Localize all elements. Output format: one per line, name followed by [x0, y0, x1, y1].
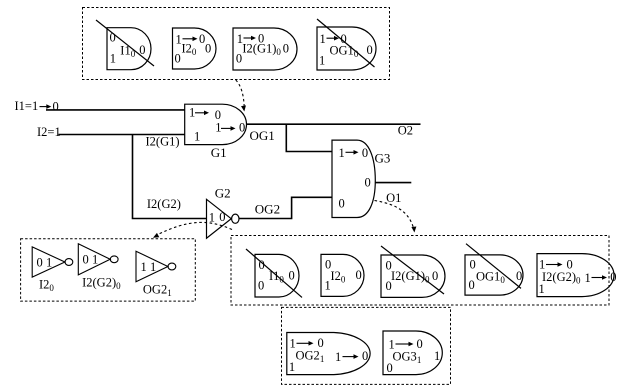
transition arrow (C OG3 top) [396, 342, 414, 347]
value label 1 (C OG3 output) [434, 349, 440, 363]
value label 1 (inv OG2 output) [150, 260, 156, 274]
svg-text:0: 0 [83, 253, 89, 267]
transition arrow (input I1) [40, 104, 52, 109]
value label 0 (B I2(G1) bottom) [386, 279, 392, 293]
gate label G1 [211, 145, 227, 160]
svg-text:I2(G2)0: I2(G2)0 [82, 276, 121, 292]
svg-text:1: 1 [335, 350, 341, 364]
svg-text:0: 0 [175, 52, 181, 66]
value label 1 (OG1 bottom input) [319, 54, 325, 68]
value label 0 (B I2 top) [325, 258, 331, 272]
svg-text:0: 0 [610, 270, 616, 284]
svg-text:0: 0 [367, 43, 373, 57]
wire OG1 branch to G3 [286, 124, 332, 151]
inverter symbol I2 (bottom-left box) [32, 247, 73, 277]
value label 0 (B OG1 output) [516, 269, 522, 283]
value label 1 (G1 input b) [194, 130, 200, 144]
value label 0 (OG1 top) [341, 32, 347, 46]
svg-text:1: 1 [215, 121, 221, 135]
transition arrow (OG1 top) [327, 36, 340, 41]
gate label G3 [375, 150, 391, 165]
input label I1 = 1 [15, 99, 39, 113]
wire G3 output to O1 [375, 182, 411, 184]
name label I2_0 [182, 42, 197, 58]
strike-through on I2(G1) (bottom-right) [381, 246, 444, 294]
value label 1 (G3 input a) [339, 146, 345, 160]
value label 1 (I2(G1) top) [237, 32, 243, 46]
gate symbol I2(G1) (bottom-right, crossed out) [381, 255, 445, 297]
svg-text:1: 1 [189, 106, 195, 120]
value label 0 (C OG3 bottom) [387, 361, 393, 375]
value label 1 (G1 output old) [215, 121, 221, 135]
name label OG2_1 (bottom-left) [143, 283, 172, 299]
name label I2(G1)_0 (bottom-right) [391, 269, 430, 285]
svg-text:0: 0 [365, 176, 371, 190]
value label 1 (C OG2 bottom) [289, 360, 295, 374]
svg-text:O2: O2 [398, 124, 413, 138]
svg-text:0: 0 [386, 279, 392, 293]
value label 0 (B OG1 bottom) [469, 278, 475, 292]
gate symbol I2(G1) (top box) [233, 28, 297, 70]
svg-text:0: 0 [339, 196, 345, 210]
wire OG1 to O2 [247, 123, 421, 125]
value label 0 (B I2(G2) output new) [610, 270, 616, 284]
value label 1 (C OG2 top) [290, 337, 296, 351]
gate symbol I2 (top box) [173, 28, 217, 69]
svg-text:0: 0 [283, 42, 289, 56]
svg-text:1: 1 [325, 279, 331, 293]
value label 1 (inv I2 output) [46, 256, 52, 270]
transition arrow (I2 top) [183, 37, 198, 42]
svg-text:1: 1 [585, 271, 591, 285]
svg-text:0: 0 [289, 269, 295, 283]
value label 0 (inv I2(G2) input) [83, 253, 89, 267]
value label 1 (I1 bottom input) [110, 52, 116, 66]
svg-text:1: 1 [46, 256, 52, 270]
svg-text:OG1: OG1 [250, 128, 275, 143]
wire I2 to G1 [59, 134, 185, 136]
name label I1_0 (bottom-right) [269, 269, 284, 285]
dashed annotation box (bottom-left fault list) [21, 239, 196, 301]
value label 1 (B I2(G2) output old) [585, 271, 591, 285]
svg-text:0: 0 [432, 269, 438, 283]
value label 0 (input I1) [53, 100, 59, 114]
svg-text:1: 1 [110, 52, 116, 66]
transition arrow (I2(G1) top) [244, 36, 257, 41]
value label 0 (I2(G1) bottom input) [236, 51, 242, 65]
value label 0 (G1 input a) [215, 108, 221, 122]
strike-through on OG1 (bottom-right) [466, 244, 521, 289]
svg-text:1: 1 [320, 32, 326, 46]
name label OG1_0 (bottom-right) [476, 270, 505, 286]
svg-text:OG2: OG2 [255, 201, 280, 216]
value label 0 (G2 output) [219, 210, 225, 224]
inverter symbol I2(G2) (bottom-left box) [78, 244, 118, 275]
wire I2 branch to G2 [133, 135, 207, 219]
value label 1 (B I2(G2) top) [539, 258, 545, 272]
svg-text:0: 0 [236, 51, 242, 65]
svg-text:0: 0 [516, 269, 522, 283]
svg-text:0: 0 [469, 278, 475, 292]
gate label G2 [215, 186, 231, 201]
svg-text:O1: O1 [386, 191, 401, 205]
value label 1 (G2 input) [209, 211, 215, 225]
gate symbol OG2 (bottom-center) [287, 333, 370, 375]
value label 0 (B I2(G1) top) [386, 259, 392, 273]
value label 0 (G1 output new) [239, 121, 245, 135]
dashed annotation box (bottom-center fault list) [282, 307, 451, 384]
svg-text:I2(G1)0: I2(G1)0 [242, 42, 281, 58]
svg-text:0: 0 [53, 100, 59, 114]
svg-text:I2=1: I2=1 [37, 125, 61, 139]
strike-through on I1 [96, 20, 154, 66]
value label 1 (inv OG2 input) [141, 260, 147, 274]
value label 1 (B I2 bottom) [325, 279, 331, 293]
AND gate G1 [185, 104, 247, 144]
gate symbol I2 (bottom-right) [321, 254, 364, 296]
gate symbol I1 (bottom-right, crossed out) [255, 254, 299, 297]
value label 0 (C OG3 top) [417, 337, 423, 351]
value label 0 (B I2(G1) output) [432, 269, 438, 283]
gate symbol I2(G2) (bottom-right) [537, 254, 614, 297]
svg-text:0: 0 [37, 256, 43, 270]
transition arrow (B I2(G2) output) [592, 275, 608, 280]
svg-text:1: 1 [289, 360, 295, 374]
name label OG2_1 (bottom-center) [296, 349, 325, 365]
output label O2 [398, 124, 413, 138]
svg-text:I2(G2): I2(G2) [147, 197, 181, 211]
transition arrow (C OG2 top) [297, 341, 314, 346]
value label 0 (G3 output) [365, 176, 371, 190]
svg-text:0: 0 [258, 279, 264, 293]
svg-text:0: 0 [362, 146, 368, 160]
svg-text:I2(G2)0: I2(G2)0 [542, 270, 581, 286]
svg-text:0: 0 [417, 337, 423, 351]
transition arrow (G1 output) [221, 126, 236, 131]
value label 1 (G1 input a) [189, 106, 195, 120]
value label 0 (C OG2 output new) [362, 349, 368, 363]
transition arrow (B I2(G2) top) [546, 262, 563, 267]
gate symbol OG1 (top box, crossed out) [317, 27, 376, 70]
svg-text:1: 1 [141, 260, 147, 274]
value label 0 (B I2 output) [356, 268, 362, 282]
dashed annotation box (bottom-right fault list) [231, 236, 609, 306]
inverter G2 [207, 199, 240, 238]
value label 0 (B I1 top) [259, 258, 265, 272]
net label OG2 [255, 201, 280, 216]
dashed annotation arrow (top box to G1 output) [236, 80, 247, 112]
inverter symbol OG2 (bottom-left box) [136, 251, 176, 282]
value label 0 (B I2(G2) top) [567, 258, 573, 272]
wire I1 to G1 [46, 109, 185, 111]
value label 0 (B OG1 top) [470, 258, 476, 272]
value label 0 (I2 top) [199, 32, 205, 46]
value label 0 (B I1 output) [289, 269, 295, 283]
transition arrow (C OG2 output) [343, 354, 359, 359]
dashed annotation arrow (O1 to bottom-right fault box) [375, 201, 417, 233]
transition arrow (G1 input a) [195, 111, 209, 116]
value label 0 (G3 input a) [362, 146, 368, 160]
value label 0 (C OG2 top) [318, 336, 324, 350]
net label OG1 [250, 128, 275, 143]
value label 1 (C OG2 output old) [335, 350, 341, 364]
name label OG3_1 (bottom-center) [393, 350, 422, 366]
svg-text:G3: G3 [375, 150, 391, 165]
dashed annotation box (top fault list) [83, 8, 390, 80]
value label 0 (I1 output) [139, 43, 145, 57]
gate symbol OG3 (bottom-center) [383, 331, 442, 375]
strike-through on I1 (bottom-right) [246, 249, 302, 297]
value label 0 (I1 top input) [110, 31, 116, 45]
svg-text:0: 0 [356, 268, 362, 282]
svg-text:1: 1 [539, 282, 545, 296]
net label I2(G2) [147, 197, 181, 211]
name label I2(G2)_0 (bottom-right) [542, 270, 581, 286]
name label I2(G1)_0 [242, 42, 281, 58]
svg-text:0: 0 [470, 258, 476, 272]
gate symbol OG1 (bottom-right, crossed out) [465, 255, 523, 295]
svg-text:1: 1 [150, 260, 156, 274]
svg-text:0: 0 [205, 42, 211, 56]
value label 1 (B I2(G2) bottom) [539, 282, 545, 296]
value label 0 (I2(G1) output) [283, 42, 289, 56]
svg-text:1: 1 [339, 146, 345, 160]
value label 1 (OG1 top) [320, 32, 326, 46]
svg-text:1: 1 [319, 54, 325, 68]
svg-text:G2: G2 [215, 186, 231, 201]
name label I2_0 (bottom-left) [39, 278, 54, 294]
value label 0 (G3 input b) [339, 196, 345, 210]
strike-through on OG1 [317, 19, 375, 67]
name label I2(G2)_0 (bottom-left) [82, 276, 121, 292]
value label 0 (B I1 bottom) [258, 279, 264, 293]
svg-text:I1=1: I1=1 [15, 99, 39, 113]
svg-text:0: 0 [219, 210, 225, 224]
svg-text:I2(G1)0: I2(G1)0 [391, 269, 430, 285]
input label I2 = 1 [37, 125, 61, 139]
value label 0 (I2(G1) top) [258, 32, 264, 46]
svg-text:I2(G1): I2(G1) [146, 135, 180, 149]
svg-text:1: 1 [434, 349, 440, 363]
svg-text:0: 0 [239, 121, 245, 135]
value label 1 (inv I2(G2) output) [92, 253, 98, 267]
svg-text:0: 0 [362, 349, 368, 363]
value label 0 (inv I2 input) [37, 256, 43, 270]
value label 0 (I2 output) [205, 42, 211, 56]
wire OG2 to G3 [239, 197, 332, 218]
value label 0 (I2 bottom input) [175, 52, 181, 66]
value label 1 (C OG3 top) [389, 338, 395, 352]
output label O1 [386, 191, 401, 205]
AND gate G3 [332, 140, 375, 217]
transition arrow (G3 input a) [346, 150, 359, 155]
name label I2_0 (bottom-right) [331, 269, 346, 285]
name label I1_0 [120, 43, 135, 59]
svg-text:1: 1 [92, 253, 98, 267]
svg-text:G1: G1 [211, 145, 227, 160]
value label 1 (I2 top) [176, 32, 182, 46]
gate symbol I1 (top box, crossed out) [107, 28, 151, 70]
dashed annotation arrow (G2 to bottom-left fault box) [152, 222, 232, 240]
net label I2(G1) [146, 135, 180, 149]
svg-text:1: 1 [194, 130, 200, 144]
svg-text:0: 0 [387, 361, 393, 375]
value label 0 (OG1 output) [367, 43, 373, 57]
name label OG1_0 [330, 43, 359, 59]
